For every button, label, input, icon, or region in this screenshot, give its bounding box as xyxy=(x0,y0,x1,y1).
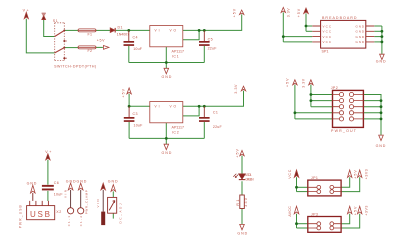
svg-text:GND: GND xyxy=(356,35,365,39)
svg-text:3.3V: 3.3V xyxy=(302,78,306,88)
svg-text:330: 330 xyxy=(244,198,248,207)
svg-text:AP1117: AP1117 xyxy=(172,49,185,53)
svg-text:GND: GND xyxy=(108,180,118,184)
svg-text:+5V: +5V xyxy=(232,8,236,17)
svg-text:AP1117: AP1117 xyxy=(172,125,185,129)
svg-text:X2: X2 xyxy=(56,210,61,214)
svg-text:V+: V+ xyxy=(45,150,51,154)
svg-text:F2: F2 xyxy=(88,49,93,53)
svg-text:C4: C4 xyxy=(133,36,138,40)
svg-text:SP1: SP1 xyxy=(322,50,329,54)
svg-text:VO: VO xyxy=(170,105,177,109)
svg-text:+5V: +5V xyxy=(286,78,290,87)
svg-text:10uF: 10uF xyxy=(134,123,144,127)
svg-text:PWR_USB: PWR_USB xyxy=(19,205,23,228)
svg-text:JP2: JP2 xyxy=(331,86,338,90)
svg-text:GREEN: GREEN xyxy=(245,178,254,182)
svg-text:VIN: VIN xyxy=(64,190,68,198)
svg-text:GND: GND xyxy=(356,30,365,34)
svg-text:3.3V: 3.3V xyxy=(287,8,291,18)
svg-text:+5V: +5V xyxy=(354,170,358,179)
svg-text:VCC: VCC xyxy=(323,40,332,44)
svg-text:USB: USB xyxy=(30,210,50,219)
svg-text:+5V: +5V xyxy=(354,206,358,215)
svg-text:GND: GND xyxy=(162,151,172,155)
svg-text:D1: D1 xyxy=(118,25,123,29)
svg-text:GND: GND xyxy=(237,232,247,236)
svg-text:C5: C5 xyxy=(208,38,213,42)
svg-text:SWITCH-DPDT(PTH): SWITCH-DPDT(PTH) xyxy=(54,65,96,69)
svg-text:+3V3: +3V3 xyxy=(364,206,368,216)
svg-text:PWR_OUT: PWR_OUT xyxy=(331,129,357,133)
svg-text:VCC: VCC xyxy=(288,169,292,178)
svg-text:LED1: LED1 xyxy=(245,173,252,177)
svg-text:22uF: 22uF xyxy=(213,125,223,129)
svg-text:22uF: 22uF xyxy=(208,47,218,51)
svg-text:10uF: 10uF xyxy=(54,193,64,197)
svg-text:PWR_CLAMP: PWR_CLAMP xyxy=(85,190,89,214)
svg-text:V+: V+ xyxy=(23,8,29,12)
svg-text:S1: S1 xyxy=(53,19,58,23)
svg-text:+5V: +5V xyxy=(297,8,301,17)
svg-text:10uF: 10uF xyxy=(133,47,143,51)
svg-text:+5V: +5V xyxy=(236,149,240,158)
svg-text:F1: F1 xyxy=(88,32,93,36)
svg-text:C3: C3 xyxy=(133,112,138,116)
svg-text:JP1: JP1 xyxy=(311,176,318,180)
svg-text:VIN: VIN xyxy=(96,200,100,208)
svg-text:IC1: IC1 xyxy=(172,54,179,58)
svg-text:VO: VO xyxy=(170,29,177,33)
svg-text:C1: C1 xyxy=(213,110,218,114)
svg-text:1N4007: 1N4007 xyxy=(117,32,129,36)
svg-text:IC2: IC2 xyxy=(172,130,179,134)
svg-text:VCC: VCC xyxy=(323,35,332,39)
svg-text:GND: GND xyxy=(162,75,172,79)
svg-text:+3V3: +3V3 xyxy=(364,169,368,179)
svg-text:VCC: VCC xyxy=(323,24,332,28)
svg-text:BREADBOARD: BREADBOARD xyxy=(322,16,357,20)
svg-text:GND: GND xyxy=(376,60,386,64)
svg-text:GND: GND xyxy=(356,40,365,44)
svg-text:+5V: +5V xyxy=(97,38,105,42)
svg-text:GND: GND xyxy=(356,24,365,28)
svg-text:GND: GND xyxy=(376,144,386,148)
svg-text:+5V: +5V xyxy=(122,88,126,97)
svg-text:JP3: JP3 xyxy=(311,213,318,217)
svg-text:C6: C6 xyxy=(54,181,59,185)
svg-text:GND: GND xyxy=(77,180,87,184)
svg-text:GND: GND xyxy=(66,180,76,184)
svg-text:VCC: VCC xyxy=(323,30,332,34)
svg-text:GND: GND xyxy=(27,181,37,185)
svg-text:AVCC: AVCC xyxy=(288,206,292,217)
svg-text:3.3V: 3.3V xyxy=(234,84,238,94)
